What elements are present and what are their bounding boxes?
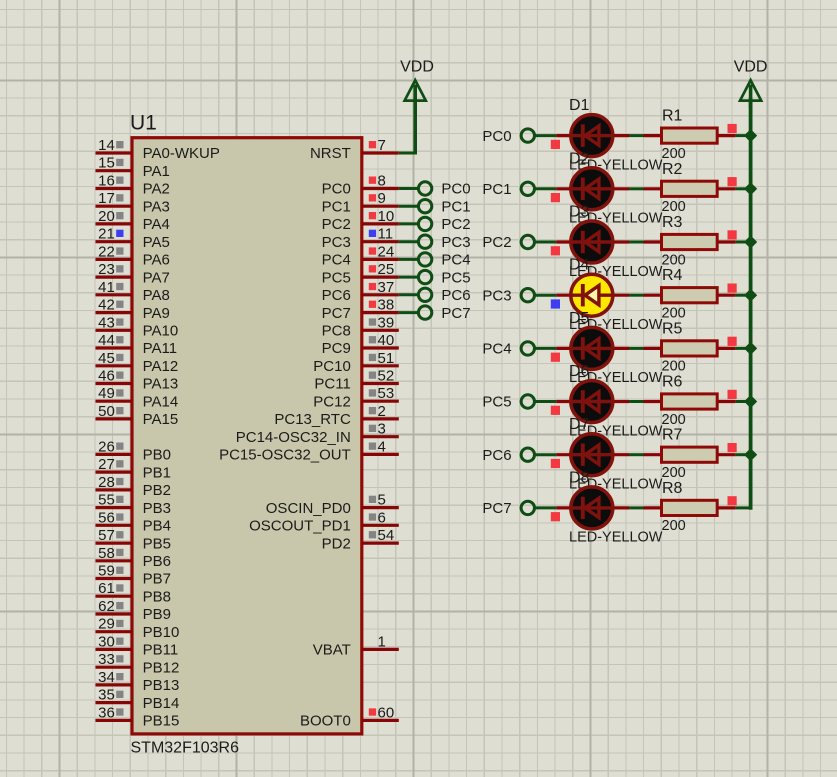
LED D5 bbox=[556, 327, 629, 369]
terminal PC0 (chip side) bbox=[418, 181, 470, 198]
svg-text:D7: D7 bbox=[569, 416, 590, 433]
svg-text:30: 30 bbox=[98, 633, 115, 650]
svg-text:PA13: PA13 bbox=[143, 376, 179, 393]
pin 42 PA9 (left) bbox=[96, 297, 170, 322]
svg-text:PC6: PC6 bbox=[441, 287, 470, 304]
wire LED D8 to resistor R8 bbox=[629, 506, 644, 509]
svg-text:OSCIN_PD0: OSCIN_PD0 bbox=[266, 500, 351, 517]
wire pin PC5 to terminal bbox=[399, 276, 419, 279]
svg-text:PC6: PC6 bbox=[482, 447, 511, 464]
svg-text:PC9: PC9 bbox=[322, 340, 351, 357]
svg-text:50: 50 bbox=[98, 403, 115, 420]
wire terminal PC5 to LED D6 bbox=[534, 400, 556, 403]
net state square resistor R4 net bbox=[728, 284, 737, 293]
net state square PC3 bbox=[551, 299, 560, 308]
terminal PC2 (chip side) bbox=[418, 216, 470, 233]
svg-text:PB2: PB2 bbox=[143, 482, 171, 499]
wire resistor R3 to VDD rail bbox=[735, 241, 750, 244]
svg-text:D1: D1 bbox=[569, 97, 590, 114]
svg-text:51: 51 bbox=[378, 350, 395, 367]
svg-text:VBAT: VBAT bbox=[313, 642, 351, 659]
resistor R1 bbox=[644, 128, 736, 143]
LED D2 bbox=[556, 168, 629, 210]
pin 36 PB15 (left) bbox=[96, 704, 180, 729]
pin 7 NRST (right) bbox=[310, 137, 399, 162]
svg-text:29: 29 bbox=[98, 616, 115, 633]
svg-text:200: 200 bbox=[662, 199, 686, 215]
svg-text:49: 49 bbox=[98, 385, 115, 402]
svg-text:D2: D2 bbox=[569, 150, 590, 167]
pin 62 PB9 (left) bbox=[96, 598, 171, 623]
LED D1 bbox=[556, 115, 629, 157]
resistor R7 bbox=[644, 447, 736, 462]
terminal PC5 (chip side) bbox=[418, 269, 470, 286]
svg-text:PB11: PB11 bbox=[143, 642, 179, 659]
svg-text:PC7: PC7 bbox=[482, 500, 511, 517]
pin 60 BOOT0 (right) bbox=[300, 704, 399, 729]
svg-text:PC3: PC3 bbox=[322, 234, 351, 251]
wire NRST to VDD bbox=[399, 98, 415, 155]
pin 25 PC5 (right) bbox=[322, 261, 399, 286]
svg-text:PA10: PA10 bbox=[143, 323, 179, 340]
resistor R5 bbox=[644, 341, 736, 356]
svg-text:1: 1 bbox=[378, 633, 386, 650]
svg-text:23: 23 bbox=[98, 261, 115, 278]
svg-text:PA1: PA1 bbox=[143, 163, 170, 180]
svg-text:5: 5 bbox=[378, 492, 386, 509]
pin 54 PD2 (right) bbox=[322, 527, 399, 552]
net state square PC6 bbox=[551, 459, 560, 468]
svg-text:43: 43 bbox=[98, 314, 115, 331]
wire terminal PC1 to LED D2 bbox=[534, 187, 556, 190]
wire pin PC0 to terminal bbox=[399, 187, 419, 190]
pin 5 OSCIN_PD0 (right) bbox=[266, 492, 399, 517]
svg-text:PC2: PC2 bbox=[322, 216, 351, 233]
svg-text:9: 9 bbox=[378, 190, 386, 207]
svg-text:BOOT0: BOOT0 bbox=[300, 713, 351, 730]
wire LED D2 to resistor R2 bbox=[629, 187, 644, 190]
pin 26 PB0 (left) bbox=[96, 438, 171, 463]
terminal PC7 (chip side) bbox=[418, 305, 470, 322]
svg-text:PC1: PC1 bbox=[322, 198, 351, 215]
wire terminal PC7 to LED D8 bbox=[534, 506, 556, 509]
svg-text:34: 34 bbox=[98, 669, 115, 686]
wire resistor R7 to VDD rail bbox=[735, 453, 750, 456]
svg-text:2: 2 bbox=[378, 403, 386, 420]
svg-text:25: 25 bbox=[378, 261, 395, 278]
svg-text:PB15: PB15 bbox=[143, 713, 180, 730]
junction rail/R2 bbox=[744, 182, 757, 195]
svg-text:61: 61 bbox=[98, 580, 115, 597]
svg-text:PC3: PC3 bbox=[482, 287, 511, 304]
svg-text:PC4: PC4 bbox=[482, 341, 511, 358]
svg-text:NRST: NRST bbox=[310, 145, 351, 162]
pin 37 PC6 (right) bbox=[322, 279, 399, 304]
pin 50 PA15 (left) bbox=[96, 403, 179, 428]
wire resistor R8 to VDD rail bbox=[735, 506, 750, 509]
resistor R2 bbox=[644, 181, 736, 196]
svg-text:58: 58 bbox=[98, 545, 115, 562]
svg-text:PC14-OSC32_IN: PC14-OSC32_IN bbox=[236, 429, 351, 446]
wire LED D1 to resistor R1 bbox=[629, 134, 644, 137]
pin 17 PA3 (left) bbox=[96, 190, 170, 215]
svg-text:42: 42 bbox=[98, 297, 115, 314]
net state square PC7 bbox=[551, 512, 560, 521]
svg-text:PC0: PC0 bbox=[322, 181, 351, 198]
svg-text:PB0: PB0 bbox=[143, 447, 171, 464]
svg-text:PB9: PB9 bbox=[143, 606, 171, 623]
junction rail/R7 bbox=[744, 448, 757, 461]
terminal PC1 (LED side) bbox=[482, 181, 534, 198]
net state square resistor R8 net bbox=[728, 496, 737, 505]
svg-text:PB13: PB13 bbox=[143, 677, 180, 694]
svg-text:PB3: PB3 bbox=[143, 500, 171, 517]
pin 52 PC11 (right) bbox=[314, 368, 398, 393]
pin 16 PA2 (left) bbox=[96, 173, 170, 198]
pin 38 PC7 (right) bbox=[322, 297, 399, 322]
svg-text:53: 53 bbox=[378, 385, 395, 402]
svg-text:21: 21 bbox=[98, 226, 115, 243]
wire terminal PC6 to LED D7 bbox=[534, 453, 556, 456]
pin 6 OSCOUT_PD1 (right) bbox=[249, 509, 399, 534]
net state square resistor R1 net bbox=[728, 124, 737, 133]
svg-text:PC15-OSC32_OUT: PC15-OSC32_OUT bbox=[219, 447, 351, 464]
net state square resistor R6 net bbox=[728, 390, 737, 399]
wire resistor R4 to VDD rail bbox=[735, 294, 750, 297]
svg-text:PB10: PB10 bbox=[143, 624, 180, 641]
svg-text:PB5: PB5 bbox=[143, 535, 171, 552]
pin 40 PC9 (right) bbox=[322, 332, 399, 357]
pin 23 PA7 (left) bbox=[96, 261, 170, 286]
net state square resistor R3 net bbox=[728, 230, 737, 239]
pin 57 PB5 (left) bbox=[96, 527, 171, 552]
svg-text:PA2: PA2 bbox=[143, 181, 170, 198]
svg-text:39: 39 bbox=[378, 314, 395, 331]
pin 39 PC8 (right) bbox=[322, 314, 399, 339]
svg-text:PB7: PB7 bbox=[143, 571, 171, 588]
svg-text:PA15: PA15 bbox=[143, 411, 179, 428]
pin 15 PA1 (left) bbox=[96, 155, 170, 180]
pin 10 PC2 (right) bbox=[322, 208, 399, 233]
pin 22 PA6 (left) bbox=[96, 243, 170, 268]
svg-text:16: 16 bbox=[98, 173, 115, 190]
svg-text:35: 35 bbox=[98, 687, 115, 704]
svg-text:PC5: PC5 bbox=[322, 269, 351, 286]
power VDD arrow symbol bbox=[405, 80, 426, 100]
wire pin PC2 to terminal bbox=[399, 222, 419, 225]
svg-text:R4: R4 bbox=[662, 267, 683, 284]
terminal PC3 (LED side) bbox=[482, 287, 534, 304]
pin 28 PB2 (left) bbox=[96, 474, 171, 499]
svg-text:200: 200 bbox=[662, 518, 686, 534]
svg-text:200: 200 bbox=[662, 359, 686, 375]
net state square resistor R2 net bbox=[728, 177, 737, 186]
svg-text:3: 3 bbox=[378, 421, 386, 438]
pin 44 PA11 (left) bbox=[96, 332, 178, 357]
terminal PC0 (LED side) bbox=[482, 128, 534, 145]
svg-text:PA6: PA6 bbox=[143, 252, 170, 269]
net state square PC0 bbox=[551, 140, 560, 149]
svg-text:D8: D8 bbox=[569, 469, 590, 486]
svg-text:22: 22 bbox=[98, 243, 115, 260]
wire terminal PC3 to LED D4 bbox=[534, 294, 556, 297]
pin 30 PB11 (left) bbox=[96, 633, 179, 658]
svg-text:R5: R5 bbox=[662, 320, 683, 337]
svg-text:200: 200 bbox=[662, 306, 686, 322]
resistor R3 bbox=[644, 234, 736, 249]
svg-text:10: 10 bbox=[378, 208, 395, 225]
pin 24 PC4 (right) bbox=[322, 243, 399, 268]
svg-text:R7: R7 bbox=[662, 427, 683, 444]
svg-text:U1: U1 bbox=[130, 112, 157, 135]
svg-text:R6: R6 bbox=[662, 374, 683, 391]
svg-text:8: 8 bbox=[378, 173, 386, 190]
svg-text:VDD: VDD bbox=[400, 59, 434, 76]
junction rail/R5 bbox=[744, 342, 757, 355]
wire terminal PC0 to LED D1 bbox=[534, 134, 556, 137]
wire resistor R6 to VDD rail bbox=[735, 400, 750, 403]
pin 58 PB6 (left) bbox=[96, 545, 171, 570]
junction rail/R3 bbox=[744, 235, 757, 248]
svg-text:38: 38 bbox=[378, 297, 395, 314]
pin 14 PA0-WKUP (left) bbox=[96, 137, 220, 162]
svg-text:200: 200 bbox=[662, 146, 686, 162]
resistor R6 bbox=[644, 394, 736, 409]
wire LED D6 to resistor R6 bbox=[629, 400, 644, 403]
wire resistor R2 to VDD rail bbox=[735, 187, 750, 190]
svg-text:PA4: PA4 bbox=[143, 216, 170, 233]
svg-text:PA7: PA7 bbox=[143, 269, 170, 286]
svg-text:4: 4 bbox=[378, 438, 386, 455]
power VDD arrow symbol bbox=[740, 80, 761, 108]
pin 4 PC15-OSC32_OUT (right) bbox=[219, 438, 399, 463]
terminal PC4 (LED side) bbox=[482, 341, 534, 358]
wire pin PC4 to terminal bbox=[399, 258, 419, 261]
svg-text:PA0-WKUP: PA0-WKUP bbox=[143, 145, 220, 162]
svg-text:PA8: PA8 bbox=[143, 287, 170, 304]
svg-text:62: 62 bbox=[98, 598, 115, 615]
svg-text:36: 36 bbox=[98, 704, 115, 721]
svg-text:200: 200 bbox=[662, 465, 686, 481]
svg-text:R3: R3 bbox=[662, 214, 683, 231]
pin 51 PC10 (right) bbox=[313, 350, 399, 375]
svg-text:PC1: PC1 bbox=[441, 198, 470, 215]
svg-text:STM32F103R6: STM32F103R6 bbox=[131, 740, 240, 757]
net state square PC1 bbox=[551, 193, 560, 202]
svg-text:PC4: PC4 bbox=[441, 252, 470, 269]
wire LED D4 to resistor R4 bbox=[629, 294, 644, 297]
pin 2 PC13_RTC (right) bbox=[274, 403, 398, 428]
svg-text:56: 56 bbox=[98, 509, 115, 526]
svg-text:24: 24 bbox=[378, 243, 395, 260]
svg-text:PB6: PB6 bbox=[143, 553, 171, 570]
svg-text:PC7: PC7 bbox=[441, 305, 470, 322]
wire pin PC6 to terminal bbox=[399, 293, 419, 296]
pin 43 PA10 (left) bbox=[96, 314, 179, 339]
svg-text:PB1: PB1 bbox=[143, 464, 171, 481]
svg-text:6: 6 bbox=[378, 509, 386, 526]
pin 45 PA12 (left) bbox=[96, 350, 179, 375]
wire resistor R5 to VDD rail bbox=[735, 347, 750, 350]
pin 1 VBAT (right) bbox=[313, 633, 399, 658]
terminal PC3 (chip side) bbox=[418, 234, 470, 251]
svg-text:PB12: PB12 bbox=[143, 659, 180, 676]
IC U1 STM32F103R6 body bbox=[132, 138, 362, 734]
svg-text:200: 200 bbox=[662, 252, 686, 268]
pin 35 PB14 (left) bbox=[96, 687, 180, 712]
svg-text:D6: D6 bbox=[569, 363, 590, 380]
svg-text:R1: R1 bbox=[662, 108, 683, 125]
svg-text:40: 40 bbox=[378, 332, 395, 349]
junction rail/R1 bbox=[744, 129, 757, 142]
svg-text:33: 33 bbox=[98, 651, 115, 668]
svg-text:14: 14 bbox=[98, 137, 115, 154]
net state square PC4 bbox=[551, 353, 560, 362]
svg-text:PC13_RTC: PC13_RTC bbox=[274, 411, 351, 428]
pin 34 PB13 (left) bbox=[96, 669, 180, 694]
terminal PC4 (chip side) bbox=[418, 252, 470, 269]
junction rail/R4 bbox=[744, 289, 757, 302]
svg-text:20: 20 bbox=[98, 208, 115, 225]
terminal PC2 (LED side) bbox=[482, 234, 534, 251]
LED D4 bbox=[556, 274, 629, 316]
svg-text:28: 28 bbox=[98, 474, 115, 491]
pin 8 PC0 (right) bbox=[322, 173, 399, 198]
svg-text:PC0: PC0 bbox=[482, 128, 511, 145]
svg-text:PA11: PA11 bbox=[143, 340, 177, 357]
svg-text:PB8: PB8 bbox=[143, 589, 171, 606]
LED D7 bbox=[556, 434, 629, 476]
svg-text:PC2: PC2 bbox=[482, 234, 511, 251]
svg-text:PA12: PA12 bbox=[143, 358, 179, 375]
terminal PC5 (LED side) bbox=[482, 394, 534, 411]
pin 61 PB8 (left) bbox=[96, 580, 171, 605]
svg-text:PD2: PD2 bbox=[322, 535, 351, 552]
svg-text:PC2: PC2 bbox=[441, 216, 470, 233]
LED D6 bbox=[556, 381, 629, 423]
svg-text:11: 11 bbox=[378, 226, 394, 243]
pin 3 PC14-OSC32_IN (right) bbox=[236, 421, 399, 446]
wire LED D7 to resistor R7 bbox=[629, 453, 644, 456]
svg-text:PC4: PC4 bbox=[322, 252, 351, 269]
LED D8 bbox=[556, 487, 629, 529]
net state square PC2 bbox=[551, 246, 560, 255]
svg-text:PB4: PB4 bbox=[143, 518, 171, 535]
svg-text:LED-YELLOW: LED-YELLOW bbox=[569, 530, 663, 546]
wire pin PC7 to terminal bbox=[399, 311, 419, 314]
pin 49 PA14 (left) bbox=[96, 385, 179, 410]
svg-text:44: 44 bbox=[98, 332, 115, 349]
svg-text:46: 46 bbox=[98, 368, 115, 385]
pin 27 PB1 (left) bbox=[96, 456, 171, 481]
pin 41 PA8 (left) bbox=[96, 279, 170, 304]
svg-text:41: 41 bbox=[98, 279, 115, 296]
pin 33 PB12 (left) bbox=[96, 651, 180, 676]
svg-text:D5: D5 bbox=[569, 310, 590, 327]
svg-text:60: 60 bbox=[378, 704, 395, 721]
svg-text:OSCOUT_PD1: OSCOUT_PD1 bbox=[249, 518, 351, 535]
svg-text:PC0: PC0 bbox=[441, 181, 470, 198]
terminal PC6 (LED side) bbox=[482, 447, 534, 464]
svg-text:PA9: PA9 bbox=[143, 305, 170, 322]
pin 11 PC3 (right) bbox=[322, 226, 399, 251]
pin 29 PB10 (left) bbox=[96, 616, 180, 641]
junction rail/R6 bbox=[744, 395, 757, 408]
svg-text:D3: D3 bbox=[569, 204, 590, 221]
svg-text:PA5: PA5 bbox=[143, 234, 170, 251]
pin 46 PA13 (left) bbox=[96, 368, 179, 393]
svg-text:D4: D4 bbox=[569, 257, 590, 274]
pin 21 PA5 (left) bbox=[96, 226, 170, 251]
wire LED D5 to resistor R5 bbox=[629, 347, 644, 350]
VDD rail (right) bbox=[749, 98, 753, 510]
svg-text:PC3: PC3 bbox=[441, 234, 470, 251]
svg-text:VDD: VDD bbox=[734, 59, 768, 76]
svg-text:55: 55 bbox=[98, 492, 115, 509]
LED D3 bbox=[556, 221, 629, 263]
svg-text:54: 54 bbox=[378, 527, 395, 544]
svg-text:PC12: PC12 bbox=[313, 393, 351, 410]
wire resistor R1 to VDD rail bbox=[735, 134, 750, 137]
pin 9 PC1 (right) bbox=[322, 190, 399, 215]
svg-text:PC11: PC11 bbox=[314, 376, 350, 393]
net state square resistor R5 net bbox=[728, 337, 737, 346]
pin 55 PB3 (left) bbox=[96, 492, 171, 517]
svg-text:PA3: PA3 bbox=[143, 198, 170, 215]
pin 56 PB4 (left) bbox=[96, 509, 171, 534]
svg-text:45: 45 bbox=[98, 350, 115, 367]
svg-text:PC7: PC7 bbox=[322, 305, 351, 322]
svg-text:PC8: PC8 bbox=[322, 323, 351, 340]
svg-text:37: 37 bbox=[378, 279, 395, 296]
svg-text:PC1: PC1 bbox=[482, 181, 511, 198]
pin 59 PB7 (left) bbox=[96, 563, 171, 588]
wire terminal PC2 to LED D3 bbox=[534, 241, 556, 244]
svg-text:PB14: PB14 bbox=[143, 695, 180, 712]
terminal PC6 (chip side) bbox=[418, 287, 470, 304]
net state square PC5 bbox=[551, 406, 560, 415]
svg-text:7: 7 bbox=[378, 137, 386, 154]
svg-text:26: 26 bbox=[98, 438, 115, 455]
pin 20 PA4 (left) bbox=[96, 208, 170, 233]
svg-text:PC5: PC5 bbox=[441, 269, 470, 286]
svg-text:PC5: PC5 bbox=[482, 394, 511, 411]
svg-text:PC10: PC10 bbox=[313, 358, 351, 375]
resistor R4 bbox=[644, 288, 736, 303]
wire pin PC3 to terminal bbox=[399, 240, 419, 243]
terminal PC1 (chip side) bbox=[418, 198, 470, 215]
net state square resistor R7 net bbox=[728, 443, 737, 452]
svg-text:R8: R8 bbox=[662, 480, 683, 497]
svg-text:52: 52 bbox=[378, 368, 395, 385]
svg-text:200: 200 bbox=[662, 412, 686, 428]
wire LED D3 to resistor R3 bbox=[629, 241, 644, 244]
svg-text:27: 27 bbox=[98, 456, 115, 473]
resistor R8 bbox=[644, 500, 736, 515]
svg-text:R2: R2 bbox=[662, 161, 683, 178]
svg-text:17: 17 bbox=[98, 190, 115, 207]
svg-text:PA14: PA14 bbox=[143, 393, 179, 410]
pin 53 PC12 (right) bbox=[313, 385, 399, 410]
wire pin PC1 to terminal bbox=[399, 205, 419, 208]
svg-text:59: 59 bbox=[98, 563, 115, 580]
wire terminal PC4 to LED D5 bbox=[534, 347, 556, 350]
terminal PC7 (LED side) bbox=[482, 500, 534, 517]
svg-text:15: 15 bbox=[98, 155, 115, 172]
svg-text:57: 57 bbox=[98, 527, 115, 544]
svg-text:PC6: PC6 bbox=[322, 287, 351, 304]
